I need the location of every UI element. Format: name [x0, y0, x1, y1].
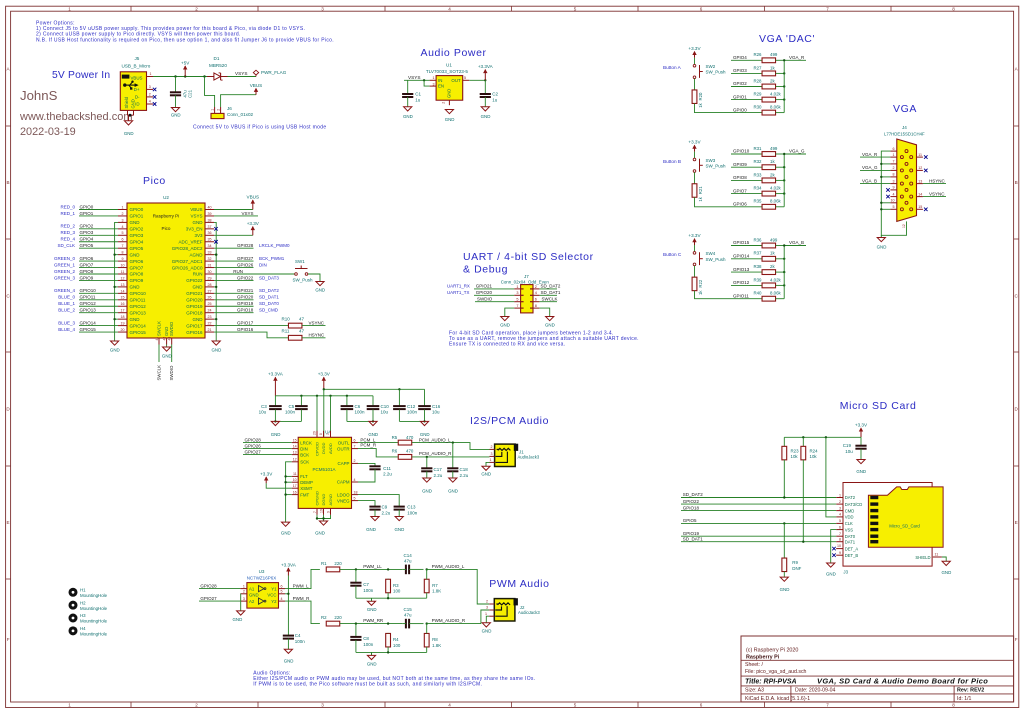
svg-text:GPIO17: GPIO17 [186, 323, 203, 328]
svg-text:26: 26 [208, 296, 212, 300]
resistor R26 499 [762, 58, 776, 63]
svg-text:AGND: AGND [189, 252, 203, 257]
wire vbus main [153, 76, 214, 78]
svg-text:C17: C17 [434, 467, 443, 472]
wire 3.3va rail [275, 395, 373, 397]
vga pin stubs left [890, 156, 896, 158]
svg-text:MountingHole: MountingHole [80, 606, 108, 611]
svg-text:4: 4 [281, 597, 283, 601]
svg-text:A1: A1 [249, 587, 255, 592]
svg-text:35: 35 [208, 238, 212, 242]
svg-text:DAT2: DAT2 [845, 495, 856, 500]
svg-text:GPIO14: GPIO14 [80, 320, 97, 325]
svg-text:GND: GND [366, 527, 376, 532]
svg-text:SW_Push: SW_Push [706, 257, 727, 262]
svg-text:3: 3 [486, 606, 488, 610]
resistor R33 2k [762, 178, 776, 183]
svg-text:R11: R11 [282, 329, 290, 334]
wire vdd rail [826, 437, 836, 517]
svg-text:9: 9 [893, 186, 895, 190]
svg-text:100n: 100n [363, 642, 374, 647]
wire pin40 VBUS [214, 209, 253, 211]
svg-text:Y2: Y2 [271, 599, 277, 604]
svg-text:GPIO16: GPIO16 [186, 330, 203, 335]
svg-text:R28: R28 [753, 78, 762, 83]
svg-text:MBR520: MBR520 [209, 63, 227, 68]
svg-text:47u: 47u [182, 90, 187, 98]
ground c9 [371, 517, 379, 521]
svg-text:NC7WZ16P6X: NC7WZ16P6X [247, 575, 277, 580]
svg-text:J3: J3 [843, 570, 848, 575]
net label GPIO18 / note SD_CMD [214, 312, 254, 314]
svg-text:6: 6 [281, 584, 283, 588]
wire xsmt [266, 483, 292, 488]
power +3.3VA u3 [287, 568, 289, 576]
connector J6 Conn_01x02 [211, 113, 224, 118]
svg-text:Micro_SD_Card: Micro_SD_Card [889, 524, 920, 529]
power +3.3V sd [860, 428, 862, 437]
resistor R20 1k pulldown [694, 79, 696, 90]
capacitor C4 100n [283, 635, 294, 637]
resistor R37 1k [762, 256, 776, 261]
svg-text:+3.3V: +3.3V [688, 233, 701, 238]
svg-text:+3.3V: +3.3V [855, 422, 868, 427]
svg-text:39: 39 [208, 212, 212, 216]
power +3.3V pico [252, 227, 254, 236]
svg-text:DVDD: DVDD [321, 443, 326, 454]
svg-text:4.02k: 4.02k [770, 92, 782, 97]
svg-text:3: 3 [321, 6, 324, 11]
svg-text:GPIO22: GPIO22 [186, 278, 203, 283]
svg-text:SD_DAT1: SD_DAT1 [683, 536, 703, 541]
svg-text:33: 33 [208, 251, 212, 255]
svg-text:9: 9 [122, 257, 124, 261]
svg-text:R34: R34 [753, 186, 762, 191]
pin 2 D- [147, 96, 154, 98]
wire HSYNC vga [923, 183, 946, 185]
wire to bus [776, 153, 785, 155]
wire j6 pin1 [205, 77, 215, 108]
svg-text:PWM_AUDIO_L: PWM_AUDIO_L [432, 564, 465, 569]
svg-text:+3.3VA: +3.3VA [268, 372, 284, 377]
svg-text:D+: D+ [134, 87, 140, 92]
svg-text:GND: GND [249, 593, 259, 598]
pico pin stubs and names [118, 209, 127, 211]
svg-text:GPIO21: GPIO21 [186, 291, 203, 296]
wire dac bus A [783, 60, 785, 112]
svg-text:ID: ID [135, 102, 139, 107]
wire dac bus C [783, 246, 785, 299]
svg-text:GND: GND [193, 285, 204, 290]
ground c12 c16 [420, 421, 428, 425]
svg-text:DNF: DNF [792, 566, 801, 571]
svg-text:2k: 2k [770, 78, 775, 83]
power +3.3VA i2s rail [274, 377, 276, 396]
power +3.3V i2s rail [323, 377, 325, 389]
svg-text:Shield: Shield [124, 96, 129, 108]
svg-text:2: 2 [122, 212, 124, 216]
svg-text:A2: A2 [249, 599, 255, 604]
svg-text:C11: C11 [383, 466, 391, 471]
svg-text:GND: GND [420, 432, 430, 437]
u3 pins [240, 588, 247, 590]
svg-text:GPIO21: GPIO21 [476, 284, 493, 289]
resistor R11 47 [288, 335, 302, 340]
svg-text:R37: R37 [753, 251, 762, 256]
capacitor C17 2.2u [426, 457, 428, 468]
wire shield gnd [942, 557, 946, 561]
svg-text:GPIO19: GPIO19 [683, 531, 700, 536]
svg-text:R5: R5 [392, 435, 398, 440]
net label VGA_B [784, 245, 806, 247]
wire to bus [776, 99, 785, 101]
svg-text:GPIO20: GPIO20 [186, 298, 203, 303]
svg-text:SWCLK: SWCLK [156, 321, 161, 336]
svg-text:GPIO19: GPIO19 [237, 301, 254, 306]
svg-text:GPIO18: GPIO18 [186, 310, 203, 315]
wire j7 pin8 gnd [539, 308, 549, 316]
ground c8 c10 [369, 421, 377, 425]
svg-text:C9: C9 [382, 505, 388, 510]
svg-text:GND: GND [422, 489, 432, 494]
svg-text:3: 3 [149, 85, 151, 89]
svg-text:GPIO2: GPIO2 [130, 227, 144, 232]
svg-text:8: 8 [839, 538, 841, 542]
svg-text:SD_CLK: SD_CLK [57, 243, 75, 248]
svg-text:R7: R7 [432, 583, 438, 588]
svg-text:DET_A: DET_A [845, 546, 859, 551]
svg-text:GPIO3: GPIO3 [130, 233, 144, 238]
svg-text:VSYS: VSYS [235, 71, 248, 76]
net label GPIO22 / note SD_DAT3 [214, 279, 254, 281]
svg-text:R27: R27 [753, 65, 762, 70]
junction agnd [215, 253, 217, 255]
svg-text:JohnS: JohnS [20, 88, 58, 103]
ground u4 [319, 521, 327, 525]
svg-text:+3.3V: +3.3V [688, 140, 701, 145]
svg-text:GPIO0: GPIO0 [733, 107, 747, 112]
svg-text:9: 9 [839, 551, 841, 555]
svg-text:VBUS: VBUS [190, 207, 202, 212]
net label GPIO28 / note LRCLK_PWM0 [214, 247, 254, 249]
svg-text:16: 16 [293, 490, 297, 494]
wire c8 c10 gnd [347, 420, 373, 422]
svg-text:10u: 10u [845, 449, 853, 454]
svg-text:GPIO0: GPIO0 [130, 207, 144, 212]
svg-text:RED_3: RED_3 [60, 230, 75, 235]
svg-text:GPIO10: GPIO10 [733, 149, 750, 154]
svg-text:GPIO9: GPIO9 [733, 162, 747, 167]
svg-text:10: 10 [293, 478, 297, 482]
svg-text:PWM_AUDIO_R: PWM_AUDIO_R [432, 618, 466, 623]
wire c12 c16 gnd [399, 420, 424, 422]
wire node PWM_LL [340, 568, 402, 570]
svg-text:GREEN_0: GREEN_0 [54, 256, 76, 261]
svg-text:GPIO1: GPIO1 [130, 214, 144, 219]
svg-text:3: 3 [893, 179, 895, 183]
power +3.3VA audio [484, 70, 486, 81]
svg-text:GND: GND [877, 245, 887, 250]
svg-text:Id: 1/1: Id: 1/1 [957, 696, 972, 702]
svg-text:VGA_B: VGA_B [789, 240, 804, 245]
svg-text:+5V: +5V [181, 60, 190, 65]
svg-text:OUTR: OUTR [337, 446, 349, 451]
svg-text:6: 6 [354, 438, 356, 442]
audio jack J2 AudioJack3 [494, 599, 515, 621]
svg-text:Button C: Button C [663, 252, 682, 257]
svg-text:GPIO15: GPIO15 [130, 330, 147, 335]
svg-text:43: 43 [168, 337, 172, 341]
capacitor C8 100n [355, 624, 357, 637]
svg-text:1: 1 [122, 205, 124, 209]
wire filter gnd rail [356, 597, 427, 599]
svg-text:GPIO11: GPIO11 [80, 295, 96, 300]
resistor R2 220 [326, 621, 340, 626]
svg-text:100n: 100n [407, 510, 418, 515]
svg-text:2.2u: 2.2u [460, 473, 469, 478]
svg-text:F: F [7, 637, 10, 642]
svg-text:TLV70033_SOT23-5: TLV70033_SOT23-5 [426, 69, 468, 74]
svg-text:GND: GND [403, 114, 413, 119]
svg-text:H1: H1 [80, 588, 86, 593]
svg-text:R24: R24 [810, 449, 819, 454]
svg-text:DAT3/CD: DAT3/CD [845, 502, 863, 507]
power VBUS pico [252, 200, 254, 209]
connector J3 micro sd body [843, 483, 932, 567]
svg-text:GREEN_3: GREEN_3 [54, 275, 76, 280]
svg-text:1k: 1k [770, 159, 775, 164]
svg-text:21: 21 [208, 328, 212, 332]
resistor R32 1k [762, 165, 776, 170]
svg-text:SD_DAT0: SD_DAT0 [259, 301, 279, 306]
svg-text:2: 2 [491, 445, 493, 449]
wire to bus [776, 72, 785, 74]
svg-text:R33: R33 [753, 172, 762, 177]
svg-text:40: 40 [208, 205, 212, 209]
svg-text:Raspberry Pi: Raspberry Pi [153, 214, 180, 219]
wire sw1 to gnd [308, 274, 320, 282]
svg-text:GPIO20: GPIO20 [237, 295, 254, 300]
svg-text:3: 3 [839, 506, 841, 510]
svg-text:C6: C6 [355, 404, 361, 409]
pin 1 VBUS [147, 76, 154, 78]
svg-text:5: 5 [839, 519, 841, 523]
svg-text:GPIO10: GPIO10 [80, 288, 97, 293]
net label GPIO20 / note SD_DAT1 [214, 299, 254, 301]
ground c2 [481, 107, 489, 111]
power +5V [184, 75, 186, 77]
svg-text:VGA_G: VGA_G [789, 149, 805, 154]
svg-text:220: 220 [334, 615, 342, 620]
svg-text:15: 15 [121, 296, 125, 300]
svg-text:C3: C3 [261, 404, 267, 409]
svg-text:10: 10 [891, 199, 895, 203]
svg-text:DEMP: DEMP [300, 480, 313, 485]
svg-text:+3.3VA: +3.3VA [478, 64, 494, 69]
svg-text:4: 4 [535, 291, 537, 295]
svg-text:GPIO13: GPIO13 [733, 267, 750, 272]
svg-text:GND: GND [367, 607, 377, 612]
svg-text:RUN: RUN [233, 269, 243, 274]
u4 bottom pins [316, 508, 318, 515]
wire j2 gnd [486, 616, 489, 623]
svg-text:2: 2 [149, 92, 151, 96]
svg-text:8.06k: 8.06k [770, 105, 782, 110]
svg-text:GND: GND [481, 114, 491, 119]
capacitor C21 [175, 77, 177, 93]
svg-text:VSS: VSS [845, 527, 854, 532]
svg-text:PWM_RR: PWM_RR [363, 618, 384, 623]
svg-text:R31: R31 [753, 146, 762, 151]
svg-text:3V3: 3V3 [194, 233, 203, 238]
svg-text:GREEN_1: GREEN_1 [54, 262, 76, 267]
resistor R21 1k pulldown [694, 172, 696, 183]
ground U1 [445, 110, 453, 114]
svg-text:VGA 'DAC': VGA 'DAC' [759, 33, 815, 45]
svg-text:GND: GND [233, 617, 243, 622]
svg-text:R40: R40 [753, 291, 762, 296]
svg-text:GPIO14: GPIO14 [733, 254, 750, 259]
svg-text:9: 9 [327, 511, 331, 513]
svg-text:Connect 5V to VBUS if Pico is: Connect 5V to VBUS if Pico is using USB … [193, 125, 326, 131]
svg-text:4: 4 [893, 192, 895, 196]
svg-text:R8: R8 [432, 637, 438, 642]
svg-text:GPIO28: GPIO28 [200, 583, 217, 588]
svg-text:www.thebackshed.com: www.thebackshed.com [19, 111, 133, 123]
wire sck flt demp fmt gnd bus [286, 462, 292, 522]
svg-text:GND: GND [447, 89, 452, 98]
svg-text:27: 27 [208, 289, 212, 293]
svg-text:R10: R10 [282, 316, 291, 321]
wire to bus [776, 193, 785, 195]
svg-text:100n: 100n [285, 410, 296, 415]
capacitor C18 2.2u [452, 443, 454, 469]
wire to bus [776, 258, 785, 260]
svg-text:VBUS: VBUS [247, 195, 260, 200]
wire out [469, 79, 485, 81]
svg-text:VGA_R: VGA_R [789, 55, 805, 60]
svg-text:2k: 2k [770, 264, 775, 269]
svg-text:15: 15 [918, 205, 922, 209]
svg-text:2.2u: 2.2u [382, 510, 391, 515]
svg-text:FMT: FMT [300, 492, 309, 497]
svg-text:GPIO15: GPIO15 [80, 327, 97, 332]
svg-text:GPIO16: GPIO16 [237, 327, 254, 332]
svg-text:AVDD: AVDD [328, 443, 333, 454]
svg-text:VGA_G: VGA_G [862, 165, 878, 170]
svg-text:R29: R29 [753, 92, 762, 97]
ground pico bottom [166, 345, 168, 348]
svg-text:U1: U1 [446, 63, 452, 68]
svg-text:VSYS: VSYS [408, 75, 421, 80]
svg-text:MountingHole: MountingHole [80, 593, 108, 598]
svg-text:3: 3 [491, 452, 493, 456]
svg-text:14: 14 [121, 289, 125, 293]
wire button B bottom [695, 197, 732, 207]
svg-text:PWM_LL: PWM_LL [363, 564, 382, 569]
resistor R36 499 [762, 243, 776, 248]
svg-text:J6: J6 [227, 106, 232, 111]
svg-text:DET_B: DET_B [845, 553, 859, 558]
svg-text:SD_DAT1: SD_DAT1 [259, 295, 279, 300]
svg-text:AudioJack3: AudioJack3 [518, 610, 540, 615]
wire HSYNC [302, 337, 326, 339]
svg-text:GND: GND [482, 629, 492, 634]
wire RUN to SW1 [214, 273, 295, 275]
svg-text:B: B [7, 180, 10, 185]
svg-text:38: 38 [208, 218, 212, 222]
capacitor C15 47u [405, 619, 407, 629]
svg-text:R38: R38 [753, 264, 762, 269]
svg-text:4: 4 [448, 703, 451, 708]
svg-text:MountingHole: MountingHole [80, 631, 108, 636]
svg-text:C16: C16 [432, 404, 441, 409]
svg-text:SHIELD: SHIELD [915, 555, 930, 560]
power VBUS [255, 88, 257, 94]
svg-text:AudioJack3: AudioJack3 [518, 455, 540, 460]
svg-text:6: 6 [535, 298, 537, 302]
svg-text:12: 12 [293, 458, 297, 462]
svg-text:GND: GND [284, 659, 294, 664]
svg-text:20: 20 [121, 328, 125, 332]
wire to bus [776, 166, 785, 168]
svg-text:1: 1 [433, 76, 435, 80]
svg-text:GPIO7: GPIO7 [733, 188, 747, 193]
svg-text:R32: R32 [753, 159, 762, 164]
junction en [423, 79, 425, 81]
title block [741, 636, 1014, 702]
u4 right pins [352, 442, 359, 444]
mounting hole H3 [69, 614, 78, 623]
svg-text:C13: C13 [407, 505, 416, 510]
svg-text:RED_4: RED_4 [60, 237, 75, 242]
svg-text:GND: GND [130, 252, 141, 257]
svg-text:18: 18 [354, 490, 358, 494]
svg-text:1u: 1u [492, 97, 498, 102]
svg-text:BLUE_0: BLUE_0 [58, 295, 75, 300]
wire VSYNC vga [923, 196, 946, 198]
wire swclk j7 [539, 301, 557, 303]
svg-text:Micro SD Card: Micro SD Card [840, 400, 917, 412]
junction c21 [174, 75, 176, 77]
svg-text:13: 13 [121, 283, 125, 287]
svg-text:VGA, SD Card & Audio Demo Boar: VGA, SD Card & Audio Demo Board for Pico [817, 677, 988, 686]
svg-text:10: 10 [121, 263, 125, 267]
svg-text:1k: 1k [770, 251, 775, 256]
resistor R7 1.8K [424, 579, 429, 593]
svg-text:4: 4 [149, 100, 151, 104]
svg-text:47u: 47u [404, 558, 412, 563]
svg-text:37: 37 [208, 225, 212, 229]
svg-text:13: 13 [918, 179, 922, 183]
wire outl pcm_l [358, 442, 398, 444]
svg-text:J5: J5 [135, 56, 140, 61]
wire pwm_audio_r to jack [427, 610, 490, 624]
ground u4 left bus [282, 522, 290, 526]
svg-text:SD_DAT3: SD_DAT3 [259, 275, 279, 280]
svg-text:SW1: SW1 [295, 259, 305, 264]
resistor R31 499 [762, 152, 776, 157]
svg-text:13: 13 [293, 450, 297, 454]
svg-text:GND: GND [368, 432, 378, 437]
ground pwm filter [367, 601, 375, 605]
svg-text:GPIO22: GPIO22 [237, 275, 254, 280]
svg-text:2: 2 [535, 285, 537, 289]
resistor R1 220 [326, 567, 340, 572]
resistor R9 DNF [783, 523, 785, 558]
svg-text:GPIO28: GPIO28 [237, 243, 254, 248]
svg-text:GPIO22: GPIO22 [683, 499, 700, 504]
